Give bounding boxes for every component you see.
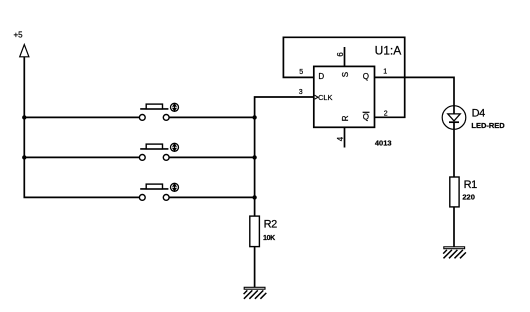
- svg-text:R1: R1: [464, 179, 478, 191]
- svg-text:S: S: [341, 72, 350, 77]
- svg-text:D4: D4: [472, 107, 486, 119]
- svg-text:D: D: [318, 72, 324, 81]
- svg-text:+5: +5: [14, 31, 24, 40]
- svg-text:220: 220: [462, 193, 475, 202]
- svg-text:R: R: [341, 115, 350, 121]
- svg-text:LED-RED: LED-RED: [471, 121, 505, 130]
- svg-text:U1:A: U1:A: [375, 44, 402, 58]
- svg-text:5: 5: [299, 69, 303, 76]
- svg-text:R2: R2: [264, 219, 278, 231]
- svg-text:Q: Q: [363, 112, 369, 121]
- svg-text:4013: 4013: [375, 139, 392, 148]
- svg-text:2: 2: [384, 110, 388, 117]
- svg-text:3: 3: [299, 89, 303, 96]
- svg-text:10K: 10K: [263, 235, 275, 242]
- svg-text:6: 6: [336, 52, 345, 56]
- svg-text:CLK: CLK: [318, 93, 332, 102]
- svg-text:Q: Q: [363, 72, 369, 81]
- svg-text:1: 1: [383, 68, 387, 75]
- svg-text:4: 4: [336, 136, 345, 141]
